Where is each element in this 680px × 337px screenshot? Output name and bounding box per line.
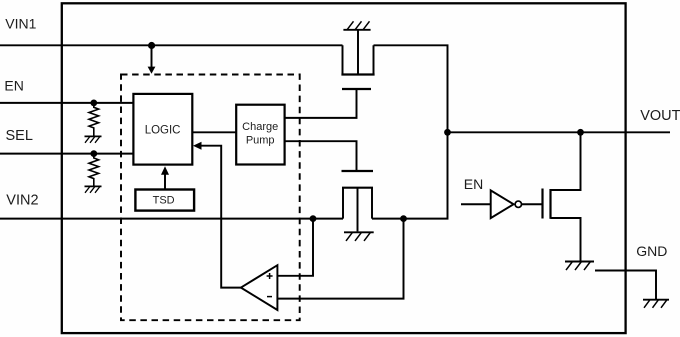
- wire VIN2 rail: [0, 218, 343, 220]
- wire Q3 source: [551, 218, 581, 262]
- block LOGIC: [133, 94, 192, 165]
- wire inverter output to Q3 gate: [522, 203, 542, 205]
- svg-text:SEL: SEL: [6, 128, 33, 144]
- wire Charge Pump out 2 to Q2 gate: [285, 141, 357, 171]
- Q3 gate bar: [541, 189, 543, 219]
- ground (chassis) external GND: [643, 300, 669, 308]
- node EN junction: [90, 100, 97, 107]
- svg-text:LOGIC: LOGIC: [145, 125, 181, 137]
- transistor Q2 (VIN2 pass FET): [342, 171, 374, 231]
- wire TSD to LOGIC arrow: [164, 174, 166, 189]
- wire comparator + input: [278, 219, 314, 276]
- ground (chassis) Q2 bulk: [344, 232, 374, 241]
- comparator + input marking: [267, 273, 273, 279]
- transistor Q1 (VIN1 pass FET): [341, 30, 374, 89]
- wire GND rail: [595, 271, 656, 300]
- wire VIN1 rail: [0, 44, 343, 46]
- wire Q3 drain: [551, 132, 581, 190]
- op-amp U2 comparator: [241, 265, 278, 310]
- svg-text:Charge: Charge: [242, 121, 278, 133]
- wire LOGIC to Charge Pump: [192, 131, 236, 133]
- Q1 bulk wire: [357, 30, 359, 75]
- svg-text:EN: EN: [4, 78, 23, 94]
- svg-text:VOUT: VOUT: [640, 108, 680, 124]
- Q1 gate bar: [342, 88, 371, 90]
- block TSD: [135, 190, 194, 211]
- transistor Q3 (output discharge NFET): [543, 132, 581, 261]
- svg-text:VIN1: VIN1: [5, 16, 36, 32]
- wire EN rail: [0, 102, 133, 104]
- comparator - input marking: [267, 296, 272, 298]
- wire Q2 legs: [343, 188, 372, 219]
- wire Q1 drain to VOUT column to Q2 drain: [372, 45, 448, 218]
- node VOUT-Q3 junction: [577, 129, 584, 136]
- node VIN2-Q2 junction: [310, 215, 317, 222]
- svg-text:EN: EN: [464, 176, 483, 192]
- block Charge Pump: [236, 105, 284, 165]
- wire comparator - input: [278, 219, 404, 299]
- resistor R1 (EN pulldown): [89, 103, 99, 136]
- dashed control block boundary: [121, 75, 300, 321]
- svg-text:TSD: TSD: [153, 195, 175, 207]
- svg-text:Pump: Pump: [246, 135, 275, 147]
- node VOUT column junction: [444, 129, 451, 136]
- inverter U3: [491, 190, 514, 218]
- wire Q1 legs: [343, 45, 374, 74]
- svg-text:VIN2: VIN2: [6, 193, 38, 209]
- ground (chassis) for R1: [85, 136, 102, 142]
- ground (chassis) for R2: [85, 186, 102, 192]
- wire VIN1 to logic arrow: [151, 45, 153, 67]
- node Q2 right junction: [400, 215, 407, 222]
- wire VOUT rail: [448, 131, 671, 133]
- Q2 gate bar: [342, 170, 374, 172]
- Q3 channel bar: [549, 189, 551, 219]
- wire inverter input: [461, 203, 490, 205]
- wire Charge Pump out 1 to Q1 gate: [285, 90, 357, 118]
- Q2 channel bar: [342, 187, 373, 189]
- svg-text:GND: GND: [636, 243, 667, 259]
- Q1 channel bar: [341, 73, 374, 75]
- node SEL junction: [90, 150, 97, 157]
- node VIN1 junction: [148, 42, 155, 49]
- resistor R2 (SEL pulldown): [89, 154, 99, 187]
- ground (chassis, flipped) Q1 bulk: [343, 21, 370, 30]
- ground (chassis) Q3 source: [565, 262, 594, 271]
- Q2 bulk wire: [357, 188, 359, 232]
- wire comparator output to LOGIC (arrow): [201, 146, 241, 288]
- wire SEL rail: [0, 153, 133, 155]
